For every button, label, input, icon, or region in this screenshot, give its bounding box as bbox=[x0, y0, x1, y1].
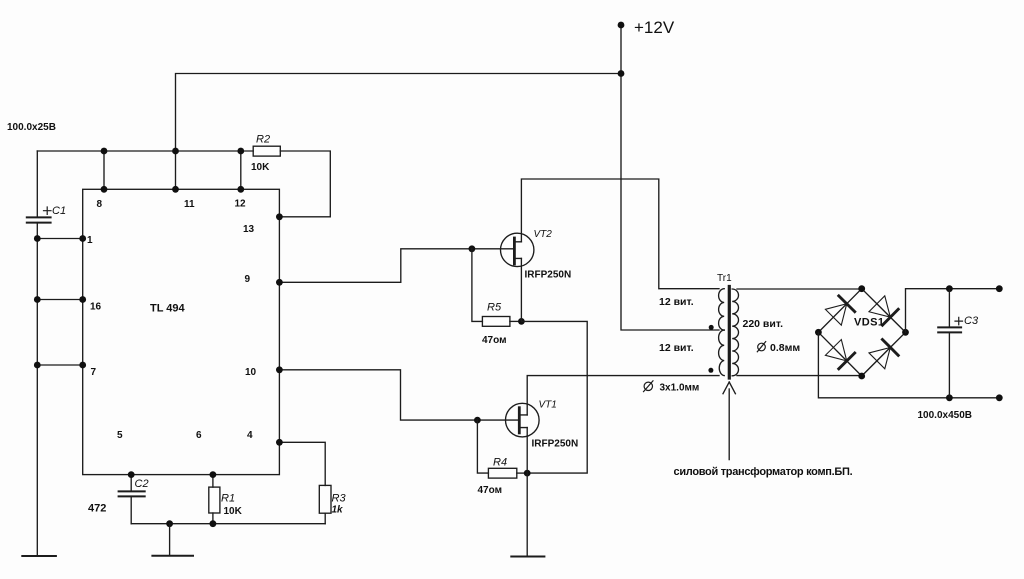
wire pin 16 to left rail bbox=[37, 299, 82, 301]
node dot VT2 gate junction bbox=[469, 245, 476, 252]
wire bottom ground bus bbox=[131, 523, 325, 525]
transistor VT1 IRFP250N bbox=[506, 403, 540, 437]
node dot C3 top tap bbox=[946, 285, 953, 292]
wire pin 4 to R3 bbox=[279, 442, 325, 485]
wire VT1 drain to transformer bottom bbox=[527, 376, 719, 415]
bridge rectifier VDS1 label bbox=[854, 317, 884, 329]
node dot R1 bottom bbox=[210, 520, 217, 527]
svg-text:0.8мм: 0.8мм bbox=[770, 342, 800, 354]
capacitor C3 designator bbox=[964, 315, 979, 327]
capacitor C3 plates bbox=[938, 327, 961, 332]
capacitor C3 polarity plus bbox=[955, 317, 963, 324]
svg-text:силовой трансформатор комп.БП.: силовой трансформатор комп.БП. bbox=[674, 466, 853, 478]
diameter symbol for 3x1.0мм bbox=[644, 381, 654, 392]
resistor R3 designator bbox=[332, 492, 347, 504]
resistor R3 body bbox=[319, 485, 331, 513]
IC U1 TL494 body bbox=[83, 189, 280, 474]
node dot VT1 source junction bbox=[524, 470, 531, 477]
transistor VT1 part number IRFP250N bbox=[532, 439, 579, 450]
node dot pin 5 bbox=[128, 471, 135, 478]
node +12V terminal dot bbox=[618, 22, 625, 29]
node dot rail x=240.8 bbox=[237, 148, 244, 155]
resistor R1 designator bbox=[221, 493, 235, 505]
bridge diode top-right bbox=[869, 296, 898, 325]
capacitor C3 top lead bbox=[948, 289, 950, 327]
node dot output minus terminal bbox=[996, 394, 1003, 401]
svg-text:R1: R1 bbox=[221, 493, 235, 505]
node dot output plus terminal bbox=[996, 285, 1003, 292]
node dot pin 16 bbox=[79, 296, 86, 303]
wire C2 bottom lead bbox=[130, 496, 132, 523]
svg-text:C1: C1 bbox=[52, 205, 66, 217]
svg-text:Tr1: Tr1 bbox=[717, 273, 732, 284]
ground symbol middle bbox=[152, 555, 193, 557]
pin number 12 bbox=[235, 199, 247, 210]
node dot pin 6 bbox=[210, 471, 217, 478]
power label +12V bbox=[634, 18, 675, 37]
svg-text:10K: 10K bbox=[251, 162, 270, 173]
svg-text:472: 472 bbox=[88, 503, 106, 515]
wire VT2 drain to transformer top bbox=[521, 179, 719, 289]
svg-text:IRFP250N: IRFP250N bbox=[532, 439, 579, 450]
svg-text:IRFP250N: IRFP250N bbox=[525, 269, 572, 280]
svg-text:R4: R4 bbox=[493, 456, 507, 468]
transformer Tr1 core bbox=[728, 287, 731, 379]
wire R5 to VT2 source bbox=[510, 320, 522, 322]
svg-text:1k: 1k bbox=[332, 505, 344, 516]
transformer phase dot lower bbox=[708, 368, 713, 373]
transistor VT2 part number IRFP250N bbox=[525, 269, 572, 280]
wire pin 8 drop bbox=[103, 151, 105, 189]
svg-text:6: 6 bbox=[196, 430, 202, 441]
pin number 1 bbox=[87, 235, 93, 246]
node dot pin 10 bbox=[276, 366, 283, 373]
svg-text:47ом: 47ом bbox=[482, 335, 507, 346]
wire bridge right corner to + output rail bbox=[906, 289, 1000, 333]
node dot VT2 source junction bbox=[518, 318, 525, 325]
capacitor C3 bottom lead bbox=[948, 332, 950, 397]
resistor R2 body bbox=[253, 146, 280, 156]
capacitor C1 top lead bbox=[36, 151, 38, 217]
svg-text:+12V: +12V bbox=[634, 18, 675, 37]
svg-text:9: 9 bbox=[245, 274, 251, 285]
label primary lower 12 вит. bbox=[659, 342, 694, 354]
node dot pin 1 bbox=[79, 235, 86, 242]
node dot bridge right corner bbox=[902, 329, 909, 336]
pin number 11 bbox=[184, 199, 195, 210]
svg-text:13: 13 bbox=[243, 224, 255, 235]
capacitor C3 value 100.0x450В bbox=[918, 410, 973, 421]
wire pin 12 drop bbox=[240, 151, 242, 189]
wire R4 to VT1 source bbox=[517, 472, 527, 474]
svg-text:10: 10 bbox=[245, 367, 257, 378]
transformer phase dot upper bbox=[709, 325, 714, 330]
resistor R5 value 47ом bbox=[482, 335, 507, 346]
svg-text:R2: R2 bbox=[256, 134, 270, 146]
svg-text:220 вит.: 220 вит. bbox=[743, 318, 784, 330]
svg-text:C2: C2 bbox=[135, 478, 149, 490]
wire +12V supply vertical and center-tap feed bbox=[621, 25, 719, 330]
wire C1 bottom lead to ground bbox=[36, 223, 38, 556]
resistor R4 body bbox=[488, 468, 516, 478]
pin number 13 bbox=[243, 224, 255, 235]
node dot rail x=175.5 bbox=[172, 148, 179, 155]
node dot bridge left corner bbox=[815, 329, 822, 336]
bridge diode top-left bbox=[825, 296, 854, 325]
wire Vcc rail y=151 from C1 to R2 bbox=[37, 150, 253, 152]
resistor R2 designator bbox=[256, 134, 270, 146]
svg-text:5: 5 bbox=[117, 430, 123, 441]
transistor VT2 IRFP250N bbox=[501, 233, 534, 266]
wire pin 11 top loop to +12V rail bbox=[176, 74, 622, 190]
svg-text:C3: C3 bbox=[964, 315, 979, 327]
wire bridge left corner to - output rail bbox=[818, 332, 999, 398]
svg-text:8: 8 bbox=[97, 199, 103, 210]
pin number 4 bbox=[247, 430, 253, 441]
node junction +12V rail dot bbox=[618, 70, 625, 77]
wire gate junction to R5 bbox=[472, 249, 483, 322]
resistor R1 top lead from pin 6 bbox=[212, 475, 214, 488]
node dot VT1 gate junction bbox=[474, 417, 481, 424]
svg-text:16: 16 bbox=[90, 302, 102, 313]
svg-text:1: 1 bbox=[87, 235, 93, 246]
node dot pin16 left bbox=[34, 296, 41, 303]
transformer Tr1 secondary winding 220 turns bbox=[732, 289, 738, 376]
svg-text:100.0x450В: 100.0x450В bbox=[918, 410, 973, 421]
transistor VT2 designator bbox=[534, 229, 553, 240]
label secondary 220 вит. bbox=[743, 318, 784, 330]
capacitor C2 designator bbox=[135, 478, 149, 490]
svg-text:R3: R3 bbox=[332, 492, 347, 504]
label primary upper 12 вит. bbox=[659, 296, 694, 308]
node dot pin1 left bbox=[34, 235, 41, 242]
node dot ground tap bbox=[166, 520, 173, 527]
annotation arrow to transformer core bbox=[723, 382, 735, 460]
resistor R1 body bbox=[209, 487, 220, 513]
node dot pin 12 bbox=[237, 186, 244, 193]
svg-text:R5: R5 bbox=[487, 302, 502, 314]
svg-text:11: 11 bbox=[184, 199, 195, 210]
wire R1 bottom lead bbox=[212, 513, 214, 524]
capacitor C1 value 100.0x25В bbox=[7, 122, 56, 133]
resistor R4 designator bbox=[493, 456, 507, 468]
node dot pin 9 bbox=[276, 279, 283, 286]
bridge diode bottom-left bbox=[825, 340, 854, 369]
svg-text:47ом: 47ом bbox=[478, 485, 503, 496]
wire R2 to pin 13 bbox=[279, 151, 330, 217]
diameter symbol for 0.8мм bbox=[757, 342, 765, 352]
wire secondary top to bridge bbox=[737, 288, 862, 290]
svg-text:12 вит.: 12 вит. bbox=[659, 342, 694, 354]
svg-text:3x1.0мм: 3x1.0мм bbox=[660, 383, 700, 394]
resistor R1 value 10K bbox=[224, 506, 243, 517]
node dot pin 11 bbox=[172, 186, 179, 193]
capacitor C1 plates bbox=[27, 217, 51, 222]
svg-text:100.0x25В: 100.0x25В bbox=[7, 122, 56, 133]
wire pin 1 to left rail bbox=[37, 238, 82, 240]
resistor R5 body bbox=[482, 317, 510, 327]
svg-text:TL 494: TL 494 bbox=[150, 303, 186, 315]
resistor R2 value 10K bbox=[251, 162, 270, 173]
node dot rail x=104 bbox=[101, 148, 108, 155]
transformer Tr1 primary winding lower 12 turns bbox=[719, 330, 725, 376]
svg-text:VDS1: VDS1 bbox=[854, 317, 884, 329]
svg-text:10K: 10K bbox=[224, 506, 243, 517]
svg-text:12: 12 bbox=[235, 199, 247, 210]
pin number 9 bbox=[245, 274, 251, 285]
svg-text:4: 4 bbox=[247, 430, 253, 441]
ground symbol left bbox=[22, 555, 56, 557]
node dot bridge bottom corner bbox=[858, 373, 865, 380]
label primary wire 3x1.0мм bbox=[660, 383, 700, 394]
wire VT1 source to ground bbox=[526, 428, 528, 556]
resistor R4 value 47ом bbox=[478, 485, 503, 496]
pin number 16 bbox=[90, 302, 102, 313]
resistor R3 value 1k bbox=[332, 505, 344, 516]
resistor R5 designator bbox=[487, 302, 502, 314]
svg-text:VT2: VT2 bbox=[534, 229, 553, 240]
node dot pin 7 bbox=[79, 362, 86, 369]
svg-text:VT1: VT1 bbox=[539, 399, 557, 410]
transformer Tr1 designator bbox=[717, 273, 732, 284]
pin number 10 bbox=[245, 367, 257, 378]
transformer Tr1 primary winding upper 12 turns bbox=[719, 289, 725, 330]
pin number 8 bbox=[97, 199, 103, 210]
wire VT2 source detour to common source node bbox=[521, 258, 587, 473]
node dot bridge top corner bbox=[858, 285, 865, 292]
wire secondary bottom to bridge bbox=[737, 375, 862, 377]
svg-text:12 вит.: 12 вит. bbox=[659, 296, 694, 308]
capacitor C2 plates bbox=[119, 491, 145, 496]
bridge diode bottom-right bbox=[869, 340, 898, 369]
pin number 6 bbox=[196, 430, 202, 441]
node dot C3 bottom tap bbox=[946, 394, 953, 401]
wire pin 7 to left rail bbox=[37, 364, 82, 366]
node dot pin 4 bbox=[276, 439, 283, 446]
wire pin 9 to VT2 gate bbox=[279, 249, 514, 282]
IC U1 name label TL 494 bbox=[150, 303, 186, 315]
transistor VT1 designator bbox=[539, 399, 557, 410]
label secondary wire diameter 0.8мм bbox=[770, 342, 800, 354]
svg-text:7: 7 bbox=[91, 367, 97, 378]
pin number 5 bbox=[117, 430, 123, 441]
wire ground tap drop bbox=[169, 524, 171, 556]
annotation text силовой трансформатор комп.БП. bbox=[674, 466, 853, 478]
capacitor C1 designator bbox=[52, 205, 66, 217]
wire R3 bottom lead bbox=[324, 513, 326, 524]
capacitor C2 top lead from pin 5 bbox=[130, 475, 132, 491]
wire gate junction to R4 bbox=[477, 420, 488, 473]
node dot pin 13 bbox=[276, 213, 283, 220]
ground symbol under VT1 bbox=[511, 556, 544, 558]
wire pin 10 to VT1 gate bbox=[279, 370, 519, 420]
node dot pin 8 bbox=[101, 186, 108, 193]
node dot pin7 left bbox=[34, 362, 41, 369]
pin number 7 bbox=[91, 367, 97, 378]
bridge rectifier VDS1 diamond bbox=[818, 289, 905, 376]
capacitor C2 value 472 bbox=[88, 503, 106, 515]
capacitor C1 polarity plus bbox=[44, 207, 52, 214]
